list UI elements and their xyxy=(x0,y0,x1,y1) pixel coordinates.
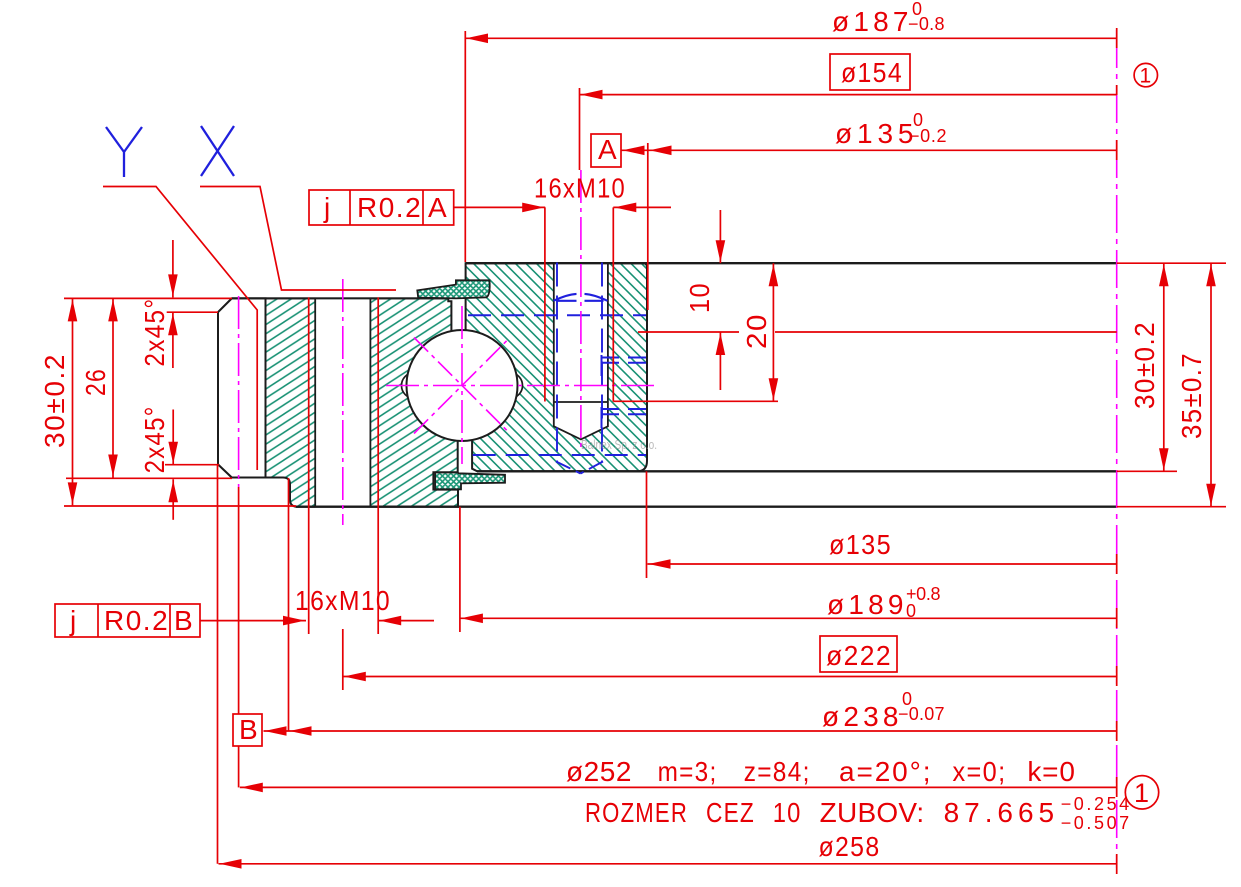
blue phantom line upper xyxy=(468,314,646,316)
dimension ø238 0/-0.07 with datum B xyxy=(233,478,1117,746)
dimension ø252 with gear data xyxy=(239,487,1117,792)
svg-text:1: 1 xyxy=(1134,778,1149,808)
silhouette line top (inner ring top face to axis) xyxy=(466,262,1117,264)
svg-text:j: j xyxy=(69,605,78,636)
silhouette line outer ring bottom face xyxy=(296,506,1117,508)
dimension ø222 (boxed) xyxy=(343,629,1117,690)
dimension 2x45° upper xyxy=(139,240,218,368)
svg-text:−0.2: −0.2 xyxy=(909,126,947,146)
silhouette line inner ring bottom face xyxy=(477,470,1117,472)
blue thread major line left xyxy=(556,263,558,463)
svg-text:ZUBOV:: ZUBOV: xyxy=(820,797,926,828)
ball diagonal ray NW-SE xyxy=(414,338,510,434)
feature control frame j R0.2 A xyxy=(309,190,454,225)
svg-text:1: 1 xyxy=(1139,65,1151,88)
bottom seal (cross-hatched) xyxy=(435,473,505,490)
svg-text:ø135: ø135 xyxy=(829,529,892,560)
svg-text:x=0;: x=0; xyxy=(953,756,1007,787)
svg-text:2x45°: 2x45° xyxy=(139,298,170,367)
svg-text:A: A xyxy=(428,192,448,223)
svg-text:−0.07: −0.07 xyxy=(898,704,945,724)
outer ring top face line xyxy=(232,297,448,299)
outer ring bolt hole slot xyxy=(315,297,370,507)
ball raceway erase xyxy=(407,331,517,441)
dimension ø187 0/-0.8 xyxy=(465,0,1116,262)
dimension ø154 (boxed) xyxy=(580,54,1117,170)
svg-text:a=20°;: a=20°; xyxy=(839,756,932,787)
dimension ø189 +0.8/0 xyxy=(460,507,1117,632)
dimension ø258 xyxy=(218,465,1117,869)
svg-text:10: 10 xyxy=(684,282,715,313)
ball vertical centerline xyxy=(461,306,463,464)
dimension 10 xyxy=(684,210,725,390)
svg-text:2x45°: 2x45° xyxy=(139,405,170,473)
X leader line xyxy=(200,187,396,291)
svg-text:A: A xyxy=(598,134,618,165)
raceway pocket right xyxy=(497,373,523,399)
dimension 20 xyxy=(613,263,1116,401)
dimension 30±0.2 left xyxy=(39,298,296,506)
svg-text:ø222: ø222 xyxy=(826,640,892,671)
top seal (cross-hatched) xyxy=(417,280,489,298)
Y surface label (blue) xyxy=(106,127,142,177)
balloon 1 top xyxy=(1134,63,1157,87)
gear tooth zone (unhatched) xyxy=(218,298,266,477)
svg-text:35±0.7: 35±0.7 xyxy=(1176,352,1207,439)
outer ring (gear ring) hatched section xyxy=(218,298,458,506)
dimension 26 xyxy=(66,298,232,478)
blue thread major line right xyxy=(601,263,603,463)
svg-text:R0.2: R0.2 xyxy=(104,605,169,636)
svg-text:−0.507: −0.507 xyxy=(1061,813,1130,833)
blue partial thread marks lower pair xyxy=(602,407,647,428)
M10 hole centerline xyxy=(580,170,582,452)
svg-text:j: j xyxy=(323,192,332,223)
Y leader line xyxy=(103,187,257,471)
svg-text:30±0.2: 30±0.2 xyxy=(39,353,70,448)
dimension 35±0.7 right xyxy=(1117,263,1226,507)
balloon 1 bottom xyxy=(1125,776,1158,809)
svg-text:20: 20 xyxy=(741,313,772,349)
svg-text:26: 26 xyxy=(80,368,111,396)
ball diagonal ray NE-SW xyxy=(414,338,510,434)
svg-text:B: B xyxy=(239,714,259,745)
gear tooth span note ROZMER CEZ 10 ZUBOV xyxy=(585,794,1130,833)
svg-text:z=84;: z=84; xyxy=(744,756,811,787)
svg-text:ø154: ø154 xyxy=(841,57,903,88)
svg-text:CEZ: CEZ xyxy=(706,797,755,828)
M10 tapped hole in inner ring xyxy=(554,262,608,439)
blue thread runout arcs at drill point xyxy=(556,462,603,474)
svg-text:m=3;: m=3; xyxy=(658,756,718,787)
X surface label (blue) xyxy=(201,126,234,176)
gear pitch centerline xyxy=(238,296,240,487)
axis end ticks xyxy=(1116,28,1118,874)
svg-text:R0.2: R0.2 xyxy=(357,192,422,223)
inner ring hatched section xyxy=(466,263,647,471)
outer ring hole centerline xyxy=(342,279,344,525)
ball horizontal centerline xyxy=(386,385,658,387)
main axis centerline xyxy=(1116,30,1118,868)
blue thread chamfer arcs xyxy=(554,294,608,301)
dimension ø135 0/-0.2 with datum A xyxy=(591,110,1117,310)
svg-text:−0.8: −0.8 xyxy=(908,14,945,34)
blue partial thread marks upper pair xyxy=(602,355,647,376)
dimension ø135 bottom xyxy=(647,471,1117,578)
svg-text:−0.254: −0.254 xyxy=(1061,794,1130,814)
dimension 30±0.2 right xyxy=(1117,263,1177,471)
dimension 16xM10 top xyxy=(454,173,671,402)
svg-text:k=0: k=0 xyxy=(1027,756,1076,787)
svg-text:B: B xyxy=(174,605,194,636)
svg-text:30±0.2: 30±0.2 xyxy=(1129,321,1160,409)
dimension 16xM10 bottom with frame j R0.2 B xyxy=(55,297,434,637)
blue phantom line lower xyxy=(473,454,646,456)
raceway pocket left xyxy=(402,373,428,399)
ball xyxy=(407,330,518,441)
dimension 2x45° lower xyxy=(139,405,219,519)
svg-text:ROZMER: ROZMER xyxy=(585,797,688,828)
svg-text:ø258: ø258 xyxy=(819,831,881,862)
svg-text:ø252: ø252 xyxy=(566,756,633,787)
svg-text:0: 0 xyxy=(906,601,917,621)
svg-text:10: 10 xyxy=(773,797,802,828)
svg-text:87.665: 87.665 xyxy=(944,797,1056,828)
svg-text:16xM10: 16xM10 xyxy=(534,173,626,204)
svg-text:Balnex Sp. z o.o.: Balnex Sp. z o.o. xyxy=(581,438,657,452)
